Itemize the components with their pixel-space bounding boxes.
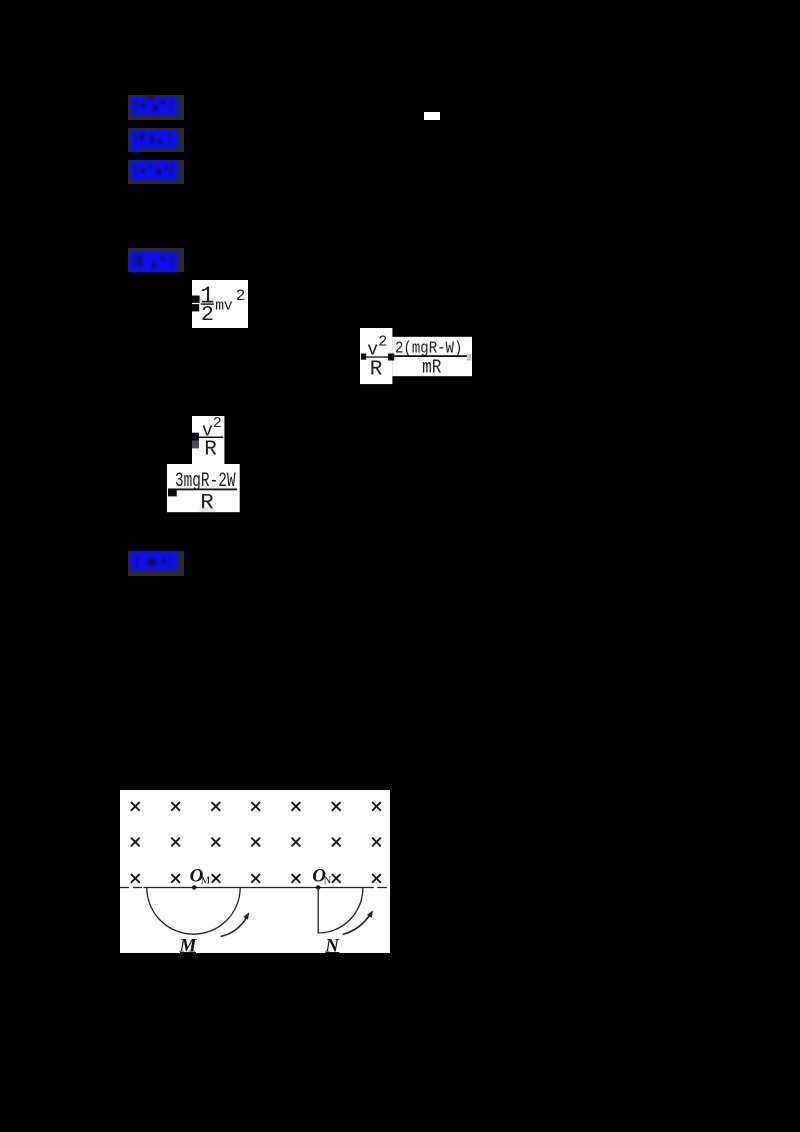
label L5 blue tag (128, 551, 184, 575)
svg-text:R: R (369, 358, 382, 381)
svg-text:2: 2 (378, 333, 387, 350)
svg-text:R: R (204, 438, 217, 461)
boundary line dashed right (364, 887, 390, 889)
label L3 blue tag (128, 160, 184, 184)
white dash mark (424, 112, 440, 120)
svg-text:N: N (324, 876, 332, 887)
label L4 blue tag (128, 248, 184, 272)
formula F2 : v^2/R = 2(mgR-W)/mR (360, 328, 473, 385)
field crosses row 3 (132, 875, 140, 883)
rotation arrow for N (343, 914, 371, 935)
field crosses row 2 (132, 838, 140, 846)
label L1 blue tag (128, 95, 184, 120)
formula F1 : (1/2)mv^2 (192, 280, 249, 328)
formula F3 : v^2/R (192, 416, 225, 466)
svg-text:mR: mR (422, 356, 442, 378)
node O_M dot (192, 885, 196, 889)
rotation arrow for M (221, 918, 247, 937)
quarter circle loop N (318, 888, 363, 934)
label L2 blue tag (128, 128, 184, 152)
formula F4 : (3mgR-2W)/R (167, 464, 241, 513)
boundary line solid (144, 887, 365, 889)
semicircle loop M (147, 888, 240, 935)
svg-text:2: 2 (201, 303, 214, 327)
boundary line dashed left (120, 887, 144, 889)
field crosses row 1 (132, 803, 140, 811)
node O_N dot (316, 885, 320, 889)
svg-text:2: 2 (236, 287, 246, 305)
svg-text:M: M (179, 935, 198, 953)
svg-text:M: M (201, 876, 211, 887)
svg-text:N: N (324, 935, 340, 953)
figure: magnetic field diagram with loops M and N (120, 790, 390, 953)
svg-text:2: 2 (212, 416, 221, 432)
svg-text:mv: mv (215, 297, 233, 314)
